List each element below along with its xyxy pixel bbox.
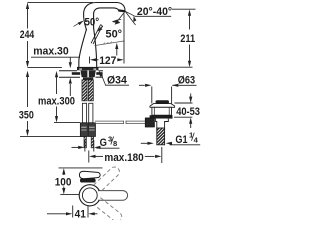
svg-text:G: G — [100, 137, 107, 149]
svg-text:Ø63: Ø63 — [178, 74, 195, 86]
svg-text:41: 41 — [75, 208, 87, 220]
svg-text:max.30: max.30 — [33, 46, 68, 58]
svg-text:50°: 50° — [85, 17, 100, 29]
svg-text:8: 8 — [113, 139, 117, 148]
svg-text:50°: 50° — [106, 29, 123, 41]
svg-text:211: 211 — [180, 33, 196, 45]
svg-text:100: 100 — [55, 177, 72, 189]
svg-text:G1: G1 — [175, 134, 188, 146]
svg-text:max.300: max.300 — [38, 96, 75, 108]
svg-text:244: 244 — [20, 29, 35, 41]
svg-text:max.180: max.180 — [104, 152, 143, 164]
svg-text:Ø34: Ø34 — [107, 74, 127, 86]
svg-text:40-53: 40-53 — [176, 106, 200, 118]
svg-text:350: 350 — [19, 109, 34, 121]
svg-text:127: 127 — [99, 55, 116, 67]
